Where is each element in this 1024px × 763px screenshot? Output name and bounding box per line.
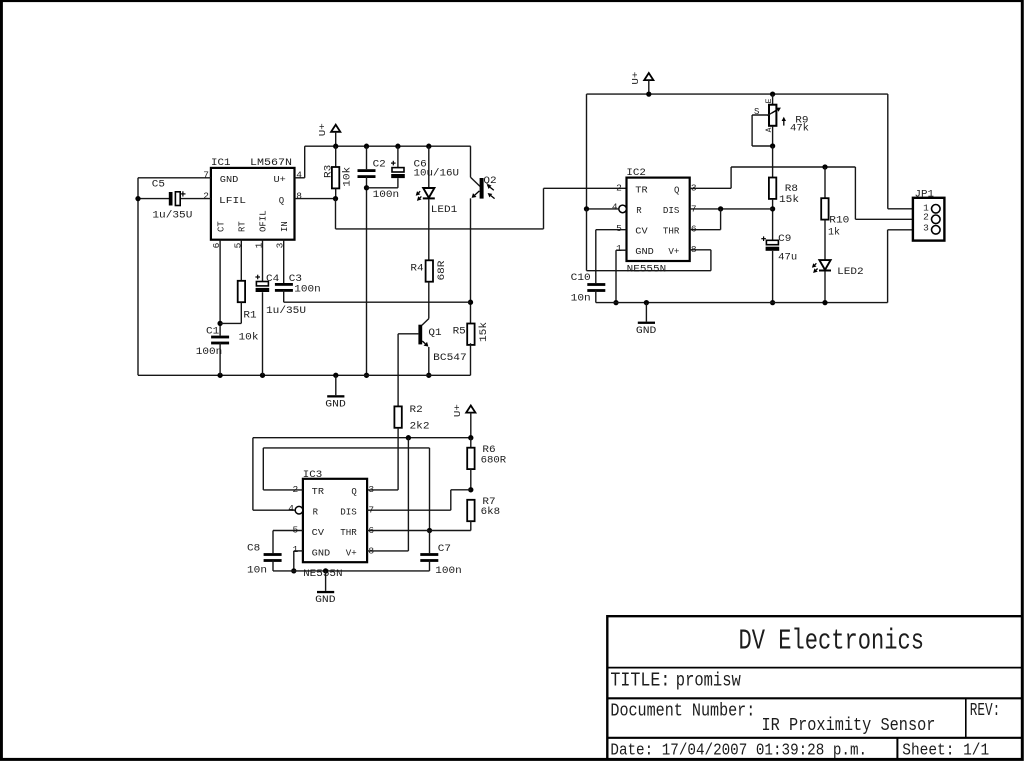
- svg-text:promisw: promisw: [676, 670, 741, 692]
- svg-text:U+: U+: [274, 175, 286, 185]
- svg-text:CV: CV: [635, 227, 648, 237]
- svg-text:100n: 100n: [196, 347, 223, 358]
- svg-text:5: 5: [616, 223, 622, 234]
- svg-text:10k: 10k: [239, 332, 259, 344]
- svg-text:RT: RT: [238, 221, 248, 232]
- svg-text:DIS: DIS: [663, 206, 680, 216]
- svg-text:GND: GND: [312, 549, 331, 559]
- svg-text:A: A: [765, 127, 774, 132]
- svg-text:TR: TR: [312, 487, 325, 497]
- svg-text:1: 1: [616, 243, 622, 254]
- svg-text:C9: C9: [778, 234, 791, 245]
- svg-text:TR: TR: [635, 186, 648, 196]
- svg-text:R: R: [636, 206, 642, 216]
- svg-text:Q: Q: [674, 186, 679, 196]
- svg-text:CT: CT: [216, 221, 226, 232]
- svg-text:Q: Q: [351, 487, 356, 497]
- svg-text:Q1: Q1: [428, 328, 441, 339]
- svg-text:47u: 47u: [778, 253, 797, 264]
- svg-text:680R: 680R: [481, 455, 507, 466]
- svg-text:7: 7: [203, 170, 209, 181]
- svg-text:IC2: IC2: [626, 168, 646, 179]
- svg-text:C2: C2: [373, 159, 386, 170]
- svg-text:2: 2: [203, 190, 209, 201]
- svg-text:C7: C7: [438, 544, 451, 555]
- svg-text:V+: V+: [346, 549, 357, 559]
- svg-text:3: 3: [923, 223, 929, 234]
- svg-text:U+: U+: [630, 71, 641, 84]
- svg-text:1u/35U: 1u/35U: [266, 305, 306, 317]
- svg-text:IC1: IC1: [211, 158, 231, 169]
- svg-text:3: 3: [368, 484, 374, 495]
- svg-text:R1: R1: [243, 310, 256, 321]
- svg-text:R3: R3: [324, 165, 335, 178]
- svg-text:R8: R8: [785, 184, 798, 195]
- svg-text:100n: 100n: [435, 566, 462, 577]
- svg-text:2k2: 2k2: [410, 420, 430, 432]
- svg-text:LED1: LED1: [431, 205, 458, 216]
- svg-text:TITLE:: TITLE:: [610, 670, 670, 692]
- svg-text:1k: 1k: [828, 226, 840, 238]
- svg-text:8: 8: [296, 190, 302, 201]
- svg-text:100n: 100n: [294, 284, 321, 295]
- svg-text:6k8: 6k8: [481, 506, 501, 518]
- svg-text:DIS: DIS: [340, 508, 357, 518]
- svg-text:IN: IN: [280, 221, 290, 232]
- svg-text:C3: C3: [289, 274, 302, 285]
- svg-text:R4: R4: [410, 263, 423, 274]
- svg-text:C1: C1: [206, 327, 219, 338]
- svg-text:15k: 15k: [478, 322, 490, 342]
- svg-text:E: E: [765, 98, 774, 103]
- svg-text:4: 4: [296, 170, 302, 181]
- svg-text:LM567N: LM567N: [250, 158, 292, 169]
- svg-text:BC547: BC547: [433, 353, 467, 364]
- svg-text:R5: R5: [453, 326, 466, 337]
- svg-text:C10: C10: [571, 273, 591, 284]
- svg-text:IC3: IC3: [303, 470, 323, 481]
- svg-text:IR Proximity Sensor: IR Proximity Sensor: [762, 716, 936, 736]
- svg-text:Date: 17/04/2007 01:39:28 p.m.: Date: 17/04/2007 01:39:28 p.m.: [610, 742, 867, 761]
- svg-text:Q: Q: [279, 196, 284, 206]
- svg-text:10n: 10n: [247, 566, 267, 577]
- svg-text:GND: GND: [636, 326, 657, 337]
- svg-text:1u/35U: 1u/35U: [152, 210, 192, 222]
- svg-text:2: 2: [923, 211, 929, 222]
- svg-text:47k: 47k: [790, 123, 809, 135]
- svg-text:Document Number:: Document Number:: [610, 702, 755, 722]
- svg-text:Sheet: 1/1: Sheet: 1/1: [902, 742, 989, 761]
- svg-text:LED2: LED2: [837, 267, 864, 278]
- svg-text:CV: CV: [312, 528, 325, 538]
- svg-text:C5: C5: [152, 179, 165, 190]
- svg-text:R: R: [313, 508, 319, 518]
- svg-text:100n: 100n: [373, 190, 400, 201]
- svg-text:10u/16U: 10u/16U: [414, 167, 460, 179]
- svg-text:4: 4: [288, 503, 294, 514]
- svg-text:DV Electronics: DV Electronics: [739, 625, 925, 658]
- svg-text:GND: GND: [220, 175, 239, 185]
- svg-text:GND: GND: [635, 247, 654, 257]
- svg-text:4: 4: [612, 202, 618, 213]
- svg-text:R10: R10: [829, 216, 849, 227]
- svg-text:10k: 10k: [341, 167, 353, 187]
- svg-text:JP1: JP1: [915, 189, 935, 200]
- svg-text:S: S: [754, 107, 759, 117]
- svg-text:R2: R2: [410, 405, 423, 416]
- svg-text:U+: U+: [317, 123, 328, 136]
- svg-text:REV:: REV:: [970, 701, 1001, 721]
- svg-text:10n: 10n: [571, 294, 591, 305]
- svg-text:OFIL: OFIL: [259, 210, 269, 232]
- svg-text:GND: GND: [325, 400, 346, 411]
- svg-text:V+: V+: [668, 247, 679, 257]
- svg-text:68R: 68R: [437, 261, 448, 281]
- svg-text:LFIL: LFIL: [219, 196, 246, 206]
- svg-text:GND: GND: [315, 595, 336, 606]
- svg-text:C8: C8: [247, 544, 260, 555]
- svg-text:THR: THR: [663, 227, 680, 237]
- svg-text:U+: U+: [452, 404, 463, 417]
- svg-text:15k: 15k: [779, 194, 799, 206]
- svg-text:2: 2: [616, 183, 622, 194]
- svg-text:THR: THR: [340, 528, 357, 538]
